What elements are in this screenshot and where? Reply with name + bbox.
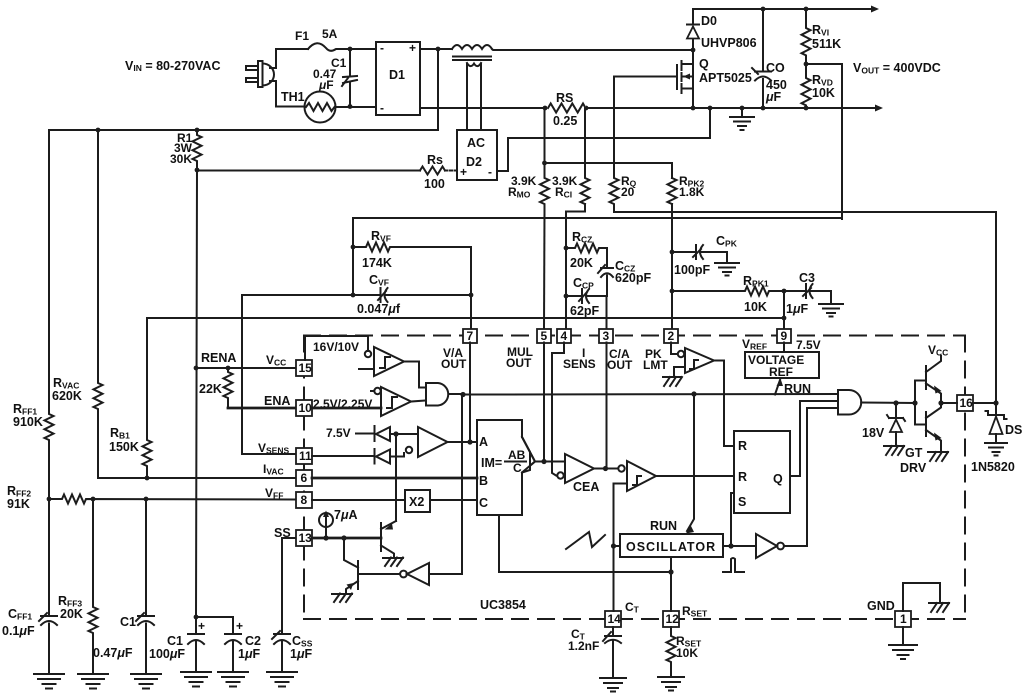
oscillator block [620,534,723,557]
svg-text:C3: C3 [799,271,815,285]
wire Q to AND [790,401,838,476]
resistor RFF1 910K [45,130,54,499]
svg-text:7.5V: 7.5V [326,426,351,440]
pin 4 [557,329,571,343]
wire V/A OUT to pin 7 [470,295,472,329]
wire osc to RSET pin [670,557,672,611]
pulse icon [723,558,744,572]
wire pin 3 [606,343,608,469]
ground [78,674,108,689]
svg-text:0.25: 0.25 [553,114,577,128]
diode DS 1N5820 [986,403,1007,419]
capacitor C3 1uF [784,284,831,304]
zener D8 18V [895,403,897,418]
svg-text:AC: AC [467,136,485,150]
svg-text:13: 13 [299,531,313,545]
svg-text:R: R [738,470,747,484]
resistor RS 0.25 (shunt) [547,101,586,115]
svg-text:100μF: 100μF [149,647,185,661]
svg-text:5: 5 [541,329,548,343]
svg-text:OUT: OUT [441,357,467,371]
svg-text:4: 4 [561,329,568,343]
buffer U9 (clock) [756,534,777,558]
ground below pin 1 [889,627,917,659]
IC UC3854 dashed boundary [304,335,965,337]
ground [819,304,843,317]
buffer amp U3 (V/A) [406,447,412,453]
svg-text:-: - [380,41,384,55]
svg-text:D2: D2 [466,155,482,169]
wire RPK2 to pin 2 [671,204,673,329]
svg-text:7μA: 7μA [334,508,358,522]
svg-text:511K: 511K [812,37,841,51]
pin 11 [296,448,312,464]
svg-text:10K: 10K [812,86,835,100]
svg-text:A: A [479,435,488,449]
ground [985,443,1007,456]
capacitor C1 0.47uF (IVAC) [138,499,154,674]
resistor Rs 100 [420,167,445,175]
wire multiplier out [535,461,565,463]
wire VFF to X2 [312,499,405,501]
resistor RCI 3.9K [581,108,590,204]
pin 2 [664,329,678,343]
svg-text:1.8K: 1.8K [679,185,705,199]
wire rectified sense bus [49,49,438,130]
svg-text:C: C [479,496,488,510]
wire VSENS [242,295,296,454]
svg-text:Rs: Rs [427,153,443,167]
capacitor CCZ 620pF [601,268,613,296]
svg-text:10: 10 [299,401,313,415]
svg-text:RENA: RENA [201,351,236,365]
svg-text:LMT: LMT [643,358,668,372]
pin 16 [957,395,973,411]
wire X2 to C input [430,499,477,501]
svg-text:ENA: ENA [264,394,290,408]
wire SS to CSS [282,538,296,634]
svg-text:Q: Q [773,472,783,486]
svg-text:6: 6 [301,471,308,485]
svg-text:S: S [738,495,746,509]
svg-text:0.47μF: 0.47μF [93,646,133,660]
wire R1 to Rs [197,170,420,172]
wire enable to SS inverter [429,395,462,575]
svg-text:DS: DS [1005,423,1022,437]
svg-text:OUT: OUT [506,356,532,370]
wire driver out to pin 16 [938,400,943,405]
svg-text:1N5820: 1N5820 [971,460,1015,474]
svg-text:CO: CO [766,61,785,75]
wire RPK1 node to pin 9 [783,291,785,318]
wire inductor to drain node [492,49,693,50]
multiplier U4 [522,437,535,473]
ground [600,678,626,692]
wire mult bottom to RSET [499,515,671,572]
AND gate U10 (driver) [838,390,861,415]
fuse F1 [308,43,350,51]
resistor RCZ 20K [566,244,607,268]
svg-text:D0: D0 [701,14,717,28]
svg-text:100pF: 100pF [674,263,710,277]
svg-text:R: R [738,439,747,453]
pin 12 [663,611,679,627]
wire IVAC line [98,477,296,479]
svg-text:7: 7 [467,329,474,343]
svg-text:1.2nF: 1.2nF [568,639,599,653]
svg-text:62pF: 62pF [570,304,600,318]
resistor RVAC 620K [94,130,103,478]
pin 15 [296,360,312,376]
ground (hatched) [884,446,904,455]
svg-text:APT5025: APT5025 [699,71,752,85]
wire RMO to pin 5 [543,211,546,329]
svg-text:620pF: 620pF [615,271,651,285]
svg-text:C1: C1 [120,615,136,629]
svg-text:91K: 91K [7,497,30,511]
svg-text:174K: 174K [362,256,392,270]
resistor RPK2 1.8K [668,178,677,204]
sawtooth icon [566,532,605,549]
svg-text:C1: C1 [167,634,183,648]
wire VCC column [196,170,197,617]
wire PKLMT to FF R [714,361,734,447]
svg-text:C: C [513,461,522,475]
svg-text:12: 12 [666,612,680,626]
svg-text:1: 1 [900,612,907,626]
svg-text:D1: D1 [389,68,405,82]
wire output top rail [693,8,872,10]
flip-flop U8 [734,431,790,513]
pin 13 [296,530,312,546]
svg-text:μF: μF [318,78,334,92]
mosfet Q APT5025 [691,48,696,53]
svg-text:10K: 10K [676,646,698,660]
svg-text:OSCILLATOR: OSCILLATOR [626,540,716,554]
svg-text:+: + [236,619,243,633]
capacitor CSS 1uF [274,538,290,672]
wire inductor secondary to D2 [467,64,481,130]
capacitor CVF 0.047uF [381,288,389,302]
transistor Q3 (SS clamp) [380,523,382,551]
svg-text:8: 8 [301,493,308,507]
resistor RQ 20 (gate) [610,77,619,213]
resistor RVD 10K [804,62,809,67]
svg-text:11: 11 [299,449,312,463]
wire TH1 to D1 [336,106,377,108]
capacitor C1 0.47uF (input) [343,49,357,107]
svg-text:15: 15 [299,361,313,375]
ground [267,672,297,687]
svg-text:GT: GT [905,446,923,460]
wire osc clock out [723,545,756,547]
resistor RFF2 91K [49,495,296,504]
ground [715,263,739,276]
wire RCI to pin 4 [566,204,585,329]
wire S input [731,493,734,546]
svg-text:7.5V: 7.5V [796,338,821,352]
diode D0 [692,38,694,50]
ground (hatched) [332,594,352,603]
wire D1+ to inductor node [420,48,452,50]
comparator U5 PWM [618,465,624,471]
wire D2 return [497,108,710,171]
capacitor C1 100uF [188,617,204,672]
capacitor CCP 62pF [566,289,607,303]
wire RUN to oscillator [687,394,694,531]
svg-text:0.047μf: 0.047μf [357,302,401,316]
clamp diode D7b (VSENS) [312,449,390,464]
thermistor TH1 [305,92,336,123]
svg-text:3: 3 [603,329,610,343]
svg-text:F1: F1 [295,29,309,43]
ground (output return) [730,108,754,130]
pin 5 [537,329,551,343]
svg-text:16: 16 [960,396,974,410]
svg-text:-: - [488,165,492,179]
svg-text:0.1μF: 0.1μF [2,624,35,638]
inverter U6 (SS) [358,573,400,575]
svg-text:-: - [380,101,384,115]
resistor RVF 174K [353,243,471,296]
wire gate drive line [614,212,996,403]
resistor R1 3W 30K [193,130,202,170]
wire plug to TH1 [270,81,304,107]
resistor RPK1 10K [672,287,784,296]
inductor L1 boost [452,45,492,49]
pin 10 [296,400,312,416]
svg-text:C2: C2 [245,634,261,648]
svg-text:RUN: RUN [784,382,811,396]
wire enable to multiplier / B C inputs [312,477,477,480]
svg-text:2: 2 [668,329,675,343]
svg-text:+: + [198,619,205,633]
svg-text:30K: 30K [170,152,192,166]
svg-text:UHVP806: UHVP806 [701,36,757,50]
pin 8 [296,492,312,508]
svg-text:TH1: TH1 [281,90,305,104]
svg-text:20K: 20K [60,607,83,621]
wire pin 5 to mult out [543,343,545,462]
svg-text:1μF: 1μF [238,647,261,661]
resistor RMO 3.9K [540,108,549,211]
pin 6 [296,470,312,486]
resistor RB1 150K [143,318,152,478]
op-amp CEA [557,472,563,478]
wire ENA [228,407,296,410]
pin 1 [895,611,911,627]
wire enable RUN line [460,392,465,397]
resistor RENA 22K [196,367,296,369]
svg-text:150K: 150K [109,440,139,454]
wire VSENS feedback line [242,218,842,295]
current source 7uA [319,513,333,527]
svg-text:18V: 18V [862,426,885,440]
pin 9 [777,329,791,343]
ground [131,674,161,689]
transistor Q6 (driver bottom) [925,412,927,436]
svg-text:X2: X2 [409,495,424,509]
svg-text:OUT: OUT [607,358,633,372]
svg-text:B: B [479,474,488,488]
ground [658,677,684,691]
capacitor CPK 100pF [672,245,727,263]
block X2 [405,490,430,512]
transistor Q5 (driver top) [915,381,926,425]
pin 7 [463,329,477,343]
wire pin16 to DS [973,402,996,404]
capacitor C2 1uF [196,617,241,672]
svg-text:SENS: SENS [563,357,596,371]
ground (hatched) [929,603,949,612]
svg-text:RUN: RUN [650,519,677,533]
svg-text:+: + [409,41,416,55]
svg-text:CEA: CEA [573,480,599,494]
svg-text:16V/10V: 16V/10V [313,340,359,354]
svg-text:IM=: IM= [481,456,502,470]
pin 3 [599,329,613,343]
wire divider tap to VSENS line [806,64,842,219]
ground (hatched) [928,452,948,461]
svg-text:9: 9 [781,329,788,343]
svg-text:620K: 620K [52,389,82,403]
transformer sense AC/D2 [457,130,497,180]
svg-text:5A: 5A [322,27,338,41]
wire plug to fuse [270,49,308,68]
svg-text:10K: 10K [744,300,767,314]
svg-text:22K: 22K [199,382,222,396]
svg-text:910K: 910K [13,415,43,429]
ground [34,674,64,689]
AC plug P1 [246,61,274,87]
svg-text:+: + [460,165,467,179]
wire branch to RPK2 [545,163,673,178]
wire SS node [312,537,381,540]
svg-text:20: 20 [621,185,635,199]
wire fuse to D1 [350,48,376,50]
ground [181,672,211,687]
svg-text:GND: GND [867,599,895,613]
pin 14 [605,611,621,627]
svg-text:14: 14 [608,612,622,626]
resistor RFF3 20K [89,499,98,674]
capacitor CFF1 0.1uF [41,616,57,674]
svg-text:μF: μF [765,90,782,104]
wire RFF1 to CFF1 [48,499,50,616]
comparator U7 PKLMT [671,343,678,355]
resistor RVI 511K [802,9,811,64]
wire CCP to pin 3 [606,296,608,329]
wire VREF line [148,317,784,319]
wire RUN from VREF [775,380,780,395]
svg-text:DRV: DRV [900,461,927,475]
wire CT ramp node [611,543,616,548]
svg-text:AB: AB [508,448,526,462]
svg-text:1μF: 1μF [786,302,809,316]
wire pin 4 to CEA [552,343,564,476]
svg-text:20K: 20K [570,256,593,270]
svg-text:1μF: 1μF [290,647,313,661]
svg-text:REF: REF [769,365,793,379]
svg-text:100: 100 [424,177,445,191]
ground (hatched) [663,377,682,386]
capacitor CO 450uF [755,9,771,108]
wire pin 7 to multiplier A [470,343,477,443]
ground (hatched) [383,558,403,567]
svg-text:UC3854: UC3854 [480,598,526,612]
bridge rectifier D1 [376,42,420,115]
AND gate U2 (enable) [426,383,448,406]
svg-text:RS: RS [556,91,573,105]
svg-text:Q: Q [699,57,709,71]
wire clamp to SS transistor [395,434,397,521]
ground [218,672,248,687]
block VOLTAGE REF [783,343,785,353]
wire negative rail [420,107,876,109]
transistor Q4 (SS discharge) [344,538,358,568]
